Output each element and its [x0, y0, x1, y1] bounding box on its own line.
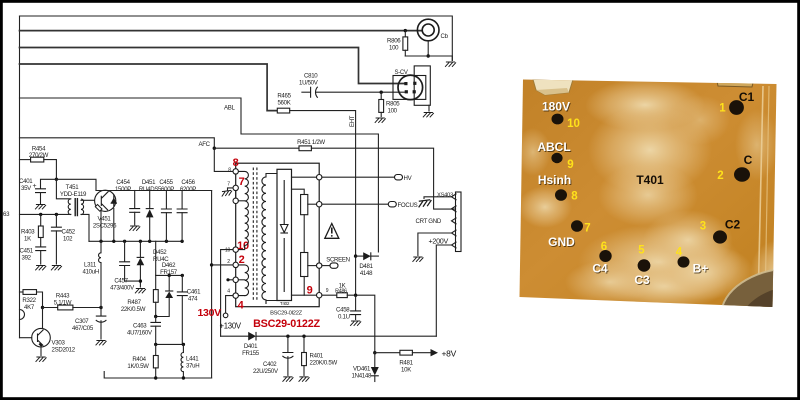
ground under C451 [35, 266, 46, 271]
svg-text:+130V: +130V [220, 322, 242, 331]
wire: pin 10 to D401 feed [221, 250, 233, 337]
node: D462 top [168, 274, 171, 277]
flyback transformer T402 outline box [236, 163, 320, 307]
flyback pin 10 [233, 247, 238, 252]
svg-text:C452: C452 [62, 229, 76, 236]
wire: block to focus divider top [292, 189, 305, 194]
svg-text:BSC29-0I22Z: BSC29-0I22Z [270, 311, 303, 317]
wire: pin 2 to vertical bus [212, 264, 233, 266]
svg-text:100: 100 [389, 45, 399, 52]
resistor R404 1K/0.5W [127, 344, 158, 378]
node: FOCUS pin on box edge [317, 202, 322, 207]
node: R403 column junction [39, 213, 42, 216]
svg-text:R443: R443 [56, 293, 70, 300]
wire: ABL line [20, 98, 379, 252]
HV terminal oval [395, 175, 413, 183]
wire: R487 riser from emitter bus [155, 241, 157, 275]
resistor R403 1K [21, 214, 43, 246]
wire: shell ground line [405, 56, 452, 61]
svg-text:2SD2012: 2SD2012 [52, 347, 76, 354]
ground under S-CV [423, 113, 434, 118]
svg-text:C461: C461 [187, 289, 201, 296]
svg-text:HV: HV [404, 175, 413, 182]
svg-text:CRT GND: CRT GND [416, 218, 442, 225]
svg-text:Hsinh: Hsinh [538, 173, 571, 187]
svg-text:C810: C810 [304, 73, 318, 80]
wire: pin 9 to R486 [322, 294, 337, 296]
node: D481 junction on EHT line [354, 254, 357, 257]
svg-text:22U/250V: 22U/250V [253, 368, 279, 375]
svg-text:270/2W: 270/2W [29, 152, 49, 159]
node: emitter bus dots [99, 240, 184, 243]
flyback internal node pin (below 7) [233, 198, 238, 203]
capacitor C454 1500P [115, 179, 140, 225]
svg-text:+8V: +8V [442, 349, 457, 359]
node: C452 column junction [55, 213, 58, 216]
svg-text:C451: C451 [20, 248, 34, 255]
ground under C307 [96, 341, 107, 346]
resistor R443 5.1/1W [43, 293, 102, 310]
svg-text:VD461: VD461 [353, 366, 371, 373]
svg-text:7: 7 [239, 176, 245, 188]
ground under C402 [283, 377, 294, 382]
inductor L441 37uH [181, 344, 199, 378]
photo label 180V [537, 90, 754, 288]
photo yellow pin numbers [567, 103, 726, 259]
svg-text:R465: R465 [277, 93, 291, 100]
transistor V451 2SC5296 [93, 190, 117, 229]
svg-text:C4: C4 [592, 262, 608, 276]
screen potentiometer body [301, 253, 308, 277]
photo pin hole 1 [729, 100, 744, 115]
svg-text:1K: 1K [24, 236, 31, 243]
wire: T451 primary bottom to left bus [20, 213, 71, 215]
svg-text:560K: 560K [277, 100, 290, 107]
node: SCREEN pin on box edge [317, 263, 322, 268]
svg-text:8: 8 [233, 157, 239, 169]
node: link dots [154, 343, 185, 346]
wire: AFC line [20, 138, 215, 148]
wire: collector bus down to flyback pin 2 and bottom bus [211, 191, 213, 379]
capacitor C463 4U7/160V [127, 317, 161, 345]
wire: junction down to T451 primary top [56, 179, 70, 199]
stub wire at internal node [228, 279, 233, 281]
svg-text:C402: C402 [263, 361, 277, 368]
svg-text:D481: D481 [359, 263, 373, 270]
ground under Cb [445, 62, 456, 67]
wire: bus line 2 to CRT anode Cb [20, 30, 422, 32]
node: EHT junction on R486 line [354, 294, 357, 297]
capacitor C451 392 [20, 247, 47, 264]
wire: R486 to +8V corner [347, 295, 375, 353]
node: C307 junction [99, 306, 102, 309]
wire: pin7 to node link [235, 191, 237, 199]
svg-text:+200V: +200V [429, 237, 449, 246]
wire: V303 collector from junction [42, 308, 44, 329]
photo pin hole 4 [678, 256, 690, 267]
wire: screen tap to screen node [308, 265, 317, 267]
node: bottom bus dots [154, 376, 185, 379]
ground under C458 [350, 321, 361, 326]
resistor R806 100 [387, 31, 408, 56]
svg-text:467/C05: 467/C05 [72, 325, 94, 332]
wire: AFC junction down to flyback pin 8 [214, 148, 233, 171]
ground under D452 [135, 289, 146, 294]
capacitor C452 102 [51, 214, 76, 264]
resistor R454 270/2W [29, 146, 49, 163]
svg-text:4148: 4148 [360, 270, 373, 277]
wire: R451 line to XS403 pin 2 [214, 147, 299, 149]
capacitor C461 474 [177, 275, 201, 344]
ground under C452 [51, 266, 62, 271]
svg-text:BSC29-0122Z: BSC29-0122Z [253, 318, 320, 330]
wire: emitter bus [89, 240, 183, 242]
CRT anode cap Cb [417, 19, 448, 41]
svg-text:RU4DS: RU4DS [139, 186, 158, 193]
core dashed lines [253, 168, 257, 302]
node: R322/R443/V303 junction [41, 306, 44, 309]
capacitor C307 467/C05 [72, 308, 106, 340]
right edge highlight streaks [758, 86, 763, 306]
dark transformer body bottom right [750, 240, 800, 304]
svg-text:C3: C3 [634, 273, 650, 287]
wire: R465 to EHT vertical [290, 111, 356, 296]
diode VD461 1N4148 [352, 353, 379, 382]
svg-text:10: 10 [225, 248, 230, 254]
connector XS403 [437, 192, 461, 252]
wire: XS403 pin4 to ground [418, 233, 452, 256]
wire: D401 line to +200V riser [221, 335, 437, 337]
wire: HV output line [322, 176, 395, 178]
svg-text:L441: L441 [186, 356, 199, 363]
svg-text:AFC: AFC [199, 141, 211, 148]
svg-text:ABL: ABL [224, 105, 236, 112]
svg-text:D452: D452 [153, 249, 167, 256]
svg-text:0.1U: 0.1U [338, 314, 350, 321]
primary winding upper (pins 8-7-10) [238, 171, 248, 249]
svg-text:R481: R481 [399, 360, 413, 367]
svg-text:473/400V: 473/400V [110, 285, 135, 292]
transformer T451 [60, 184, 87, 216]
primary winding lower (pins 2-4) [238, 265, 248, 296]
diode D451 RU4DS [139, 179, 158, 241]
wire: collector bus [96, 190, 212, 192]
svg-text:7: 7 [584, 223, 590, 235]
svg-text:2: 2 [239, 254, 245, 266]
wire: T451 secondary bottom to emitter bus [81, 214, 89, 241]
wire: screen pot bottom to pin9 line [303, 277, 305, 296]
resistor R805 100 [379, 92, 400, 116]
photo pin hole 6 [599, 250, 611, 262]
wire: junction right to collector bus riser [56, 179, 96, 190]
node: C402 junction [286, 335, 289, 338]
resistor R451 1/2W [297, 139, 325, 151]
svg-text:T401: T401 [636, 173, 664, 187]
svg-text:V451: V451 [97, 216, 111, 223]
node: +8V junction [373, 351, 376, 354]
svg-text:R404: R404 [132, 356, 146, 363]
svg-text:T451: T451 [66, 184, 80, 191]
svg-text:C2: C2 [725, 218, 741, 232]
top-left cream tab [533, 80, 573, 96]
ground at XS403 pin1 [418, 200, 432, 208]
wire: focus tap to focus node [308, 203, 317, 205]
svg-text:R401: R401 [310, 353, 324, 360]
svg-text:9: 9 [567, 159, 573, 171]
svg-text:4: 4 [676, 247, 683, 259]
HV rectifier block [277, 169, 292, 300]
node: pin 9 on box edge [317, 293, 322, 298]
photo pin hole 8 [555, 189, 567, 201]
node: Cb shell junction [427, 54, 430, 57]
svg-text:102: 102 [63, 236, 73, 243]
svg-text:+: + [33, 183, 37, 190]
node: C461 top [181, 274, 184, 277]
photo pin hole 7 [571, 220, 583, 232]
svg-text:T402: T402 [280, 301, 290, 306]
resistor R487 22K/0.5W [121, 275, 158, 316]
ground under V303 [36, 357, 47, 362]
top-right tab [716, 77, 754, 87]
diode D481 4148 [356, 252, 379, 277]
capacitor C455 5600P [158, 179, 174, 241]
svg-text:GND: GND [548, 235, 575, 249]
svg-text:L311: L311 [84, 262, 97, 269]
svg-text:10: 10 [237, 240, 249, 252]
wire: pin 7 to ground [228, 188, 234, 190]
svg-text:1N4148: 1N4148 [352, 373, 372, 380]
svg-text:9: 9 [307, 285, 313, 297]
flyback pin 2 [233, 262, 238, 267]
svg-text:D401: D401 [244, 343, 258, 350]
+130V terminal circle [223, 313, 228, 318]
wire: pin 4 to +130V terminal [226, 296, 233, 313]
wire: block bottom to pin 9 [292, 294, 317, 296]
flyback pin 8 [233, 169, 238, 174]
wire: S-CV shield stub to ground [428, 105, 430, 111]
wire: secondary top to HV block [266, 174, 277, 177]
svg-text:63: 63 [3, 211, 10, 218]
resistor R481 10K [375, 349, 457, 374]
svg-text:C401: C401 [19, 178, 33, 185]
wire: divider link [303, 215, 305, 253]
photo pin hole 10 [552, 114, 564, 125]
node: R401 junction [302, 335, 305, 338]
SCREEN terminal [322, 257, 350, 269]
node: R806 top junction [404, 29, 407, 32]
svg-text:6: 6 [601, 241, 607, 253]
wire: bus line 4 to R465 [20, 64, 278, 111]
svg-text:1U/50V: 1U/50V [299, 80, 319, 87]
secondary winding [262, 177, 266, 304]
wire: XS403 pin1 to ground [424, 197, 452, 199]
svg-text:C307: C307 [75, 318, 89, 325]
winding tap lower internal node [238, 279, 244, 281]
ground at XS403 pin4 [413, 257, 424, 262]
svg-text:130V: 130V [198, 307, 222, 319]
wire: parallel line R487/D462 [156, 274, 183, 276]
svg-text:C458: C458 [336, 307, 350, 314]
svg-text:8: 8 [571, 191, 578, 203]
resistor R486 1K [335, 283, 347, 298]
svg-text:3: 3 [700, 221, 706, 233]
svg-text:YDD-E119: YDD-E119 [60, 191, 87, 198]
wire: bus line 1 to Cb ground [20, 16, 453, 61]
photo pin hole 5 [638, 259, 651, 271]
svg-text:C463: C463 [133, 323, 147, 330]
svg-text:B+: B+ [693, 262, 709, 276]
wire: secondary bottom to HV block [266, 301, 277, 304]
svg-text:1K/0.5W: 1K/0.5W [127, 363, 149, 370]
capacitor C456 6200P [177, 179, 197, 241]
svg-text:5: 5 [638, 245, 645, 257]
wire: V451 emitter to bus [100, 210, 102, 241]
wire: left vertical bus [19, 16, 21, 338]
svg-text:ABCL: ABCL [537, 140, 570, 154]
capacitor C457 473/400V [110, 241, 140, 291]
photo pin hole 3 [713, 230, 727, 243]
wire: V303 emitter [40, 347, 42, 356]
svg-text:10K: 10K [401, 367, 411, 374]
svg-text:R487: R487 [127, 299, 141, 306]
svg-text:FR155: FR155 [242, 350, 260, 357]
svg-text:100: 100 [388, 108, 398, 115]
capacitor C458 0.1U [336, 295, 361, 320]
diode D462 FR157 [156, 262, 178, 317]
svg-text:Cb: Cb [441, 33, 449, 40]
svg-text:2: 2 [717, 170, 723, 182]
wire: V451 damper diode to bus [113, 209, 115, 242]
capacitor C402 22U/250V [253, 336, 293, 375]
svg-text:37uH: 37uH [186, 363, 199, 370]
node: HV pin on box edge [317, 175, 322, 180]
flyback pin 7 [233, 185, 238, 190]
node: C457/D452 join [139, 279, 142, 282]
inductor L311 410uH [83, 241, 102, 307]
resistor R322 4K7 [20, 290, 43, 311]
svg-text:C: C [744, 153, 753, 167]
svg-text:392: 392 [22, 255, 32, 262]
svg-text:R805: R805 [386, 101, 400, 108]
wire: bus line 3 to S-CV upper pin [20, 48, 405, 84]
ground at pin 7 [221, 190, 232, 196]
FOCUS terminal oval [388, 202, 417, 210]
svg-text:V303: V303 [52, 340, 66, 347]
wire: T451 secondary top to V451 base [81, 199, 95, 201]
node: R805 junction [380, 91, 383, 94]
node dot on stub [226, 278, 229, 281]
svg-text:FR157: FR157 [160, 269, 178, 276]
S-CV connector [393, 66, 430, 105]
svg-text:C1: C1 [739, 90, 755, 104]
svg-text:SCREEN: SCREEN [326, 257, 350, 264]
wire: C463/C461 bottom link [156, 343, 184, 345]
wire: FOCUS output line [322, 203, 388, 205]
ground under C454 [129, 226, 140, 231]
node: R454/C401/T451 junction [55, 178, 58, 181]
focus potentiometer body [301, 195, 308, 215]
flyback pin 4 [233, 293, 238, 298]
ground under R401 [299, 377, 310, 382]
capacitor C810 1U/50V [299, 73, 405, 98]
flyback internal node pin (below 2) [233, 277, 238, 282]
wire: V303 base from left bus [20, 337, 32, 339]
node: R487/D462 bottom join [154, 315, 157, 318]
capacitor C401 (electrolytic) [19, 178, 46, 204]
wire: bottom bus [104, 372, 211, 379]
ground under R805 [375, 118, 386, 123]
node: AFC junction [213, 147, 216, 150]
wire: R454 to junction [44, 160, 57, 180]
resistor R465 [277, 93, 291, 114]
diode D452 RU4C [137, 241, 170, 287]
winding tap to internal node [238, 200, 244, 202]
svg-text:180V: 180V [542, 100, 570, 114]
wire: junction to C401 [41, 179, 57, 188]
wire: Cb outer shell to ground line [427, 41, 429, 56]
wire: R454 feed line [20, 159, 31, 161]
warning triangle [325, 224, 339, 239]
svg-text:R403: R403 [21, 229, 35, 236]
transistor V303 2SD2012 [32, 328, 76, 353]
svg-text:R806: R806 [387, 38, 401, 45]
svg-text:R322: R322 [22, 297, 36, 304]
wire: XS403 pin5 (+200V) down to D401 line [436, 245, 451, 336]
svg-text:22K/0.5W: 22K/0.5W [121, 306, 146, 313]
resistor R401 220K/0.5W [302, 336, 338, 375]
svg-text:474: 474 [188, 296, 198, 303]
wire: R451 to XS403 pin2 [311, 148, 455, 209]
svg-text:EHT: EHT [350, 115, 356, 127]
svg-text:XS403: XS403 [437, 193, 453, 199]
node: pin2 junction on vertical [210, 263, 213, 266]
wire: block to HV node [292, 176, 317, 178]
svg-text:220K/0.5W: 220K/0.5W [310, 360, 338, 367]
svg-text:10: 10 [567, 118, 580, 130]
diode D401 FR155 [242, 332, 260, 357]
svg-text:4U7/160V: 4U7/160V [127, 330, 153, 337]
svg-text:4K7: 4K7 [24, 304, 35, 311]
svg-text:FOCUS: FOCUS [398, 202, 418, 209]
svg-text:1: 1 [719, 103, 726, 115]
svg-text:410uH: 410uH [83, 269, 99, 276]
photo pin hole 2 [734, 167, 750, 181]
ground under C401 [35, 205, 46, 210]
svg-text:R451 1/2W: R451 1/2W [297, 139, 325, 146]
svg-text:1500P: 1500P [115, 186, 131, 193]
wire hop on left vertical bus [20, 310, 25, 320]
svg-text:35V: 35V [21, 185, 32, 192]
photo pin hole 9 [551, 153, 562, 163]
HV rectifier internal diode [280, 180, 288, 292]
